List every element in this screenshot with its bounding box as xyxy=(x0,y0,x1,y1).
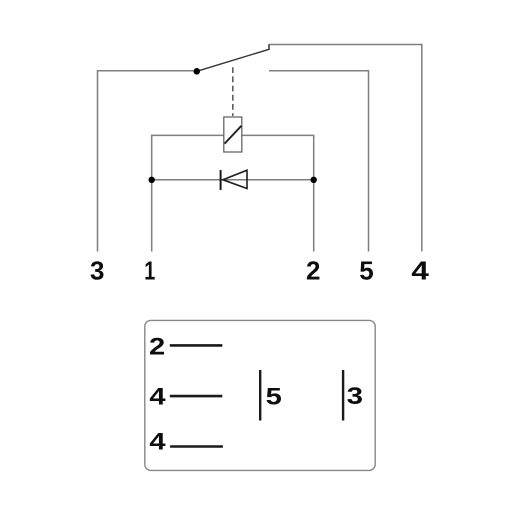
contact tick at arm tip xyxy=(268,44,270,50)
junction node left xyxy=(149,177,155,183)
dashed actuator link xyxy=(232,67,234,116)
pin 4b blade xyxy=(170,445,223,448)
pin 4 blade xyxy=(170,395,223,398)
connector outline box xyxy=(145,320,375,470)
relay coil K1 xyxy=(224,117,242,152)
wire diode row xyxy=(152,179,314,181)
svg-text:4: 4 xyxy=(149,384,166,411)
switch arm SW (movable contact) xyxy=(197,49,269,71)
wire terminal 3 (common pole feed) xyxy=(98,71,197,252)
svg-text:5: 5 xyxy=(266,384,282,411)
svg-text:2: 2 xyxy=(149,334,165,361)
wire terminal 5 (NC contact, middle) xyxy=(269,71,369,252)
junction node right xyxy=(311,177,317,183)
svg-text:3: 3 xyxy=(90,255,104,285)
node pivot junction xyxy=(194,68,201,75)
pin 5 bar xyxy=(259,370,261,421)
pin 3 bar xyxy=(342,370,344,421)
svg-text:3: 3 xyxy=(347,383,363,410)
wire coil right (to terminal 2) xyxy=(242,135,314,251)
svg-text:5: 5 xyxy=(359,255,373,285)
diode D1 xyxy=(221,170,247,190)
wire coil left (to terminal 1) xyxy=(152,135,224,251)
svg-text:2: 2 xyxy=(306,255,320,285)
wire terminal 4 (NO contact, top) xyxy=(269,45,422,252)
svg-text:4: 4 xyxy=(411,255,429,285)
pin 2 blade xyxy=(170,344,223,347)
svg-text:4: 4 xyxy=(149,429,166,456)
svg-text:1: 1 xyxy=(144,255,155,285)
